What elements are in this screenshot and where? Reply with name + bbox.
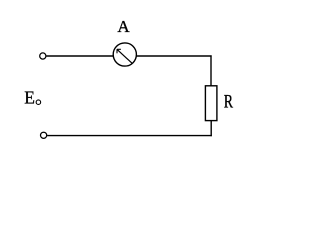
- svg-text:R: R: [224, 93, 234, 113]
- ammeter U1 (meter circle): [113, 43, 136, 66]
- wire right vertical upper (corner to resistor top): [210, 55, 212, 85]
- wire right vertical lower (resistor bottom to corner): [210, 121, 212, 137]
- ammeter needle arrowhead barb vertical: [116, 49, 118, 53]
- terminal T1 (top left, open circle): [40, 53, 46, 59]
- terminal T2 (bottom left, open circle): [41, 132, 47, 138]
- wire top-left (terminal T1 to ammeter): [46, 55, 113, 57]
- ammeter needle shaft: [117, 49, 132, 63]
- wire top-right (ammeter to corner): [136, 55, 211, 57]
- resistor R (rectangle body): [205, 86, 217, 121]
- svg-text:E: E: [24, 87, 35, 107]
- ammeter needle arrowhead barb horizontal: [117, 48, 121, 50]
- wire bottom (corner to terminal T2): [47, 135, 212, 137]
- label Eo subscript o: [36, 100, 41, 105]
- svg-text:A: A: [117, 17, 130, 36]
